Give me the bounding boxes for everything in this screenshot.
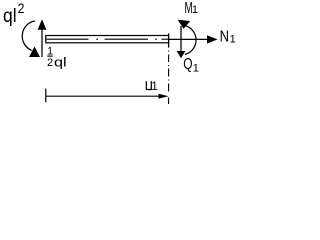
svg-text:2: 2: [18, 0, 25, 16]
label ql^2 (applied moment value): [3, 0, 25, 27]
svg-text:1: 1: [192, 4, 198, 16]
svg-text:1: 1: [230, 33, 236, 45]
svg-text:N: N: [220, 29, 229, 46]
moment arrow ql^2 (left end, arc): [22, 21, 35, 51]
beam cut section cap: [168, 33, 170, 47]
dimension line un: [46, 95, 160, 97]
svg-text:1: 1: [151, 81, 157, 93]
dimension extension line (dash-dot, below right end): [168, 51, 170, 105]
svg-text:1: 1: [193, 63, 199, 75]
beam outline: [46, 36, 169, 43]
force arrow Q1 arrowhead: [177, 51, 186, 58]
beam centerline (dash-dot): [47, 38, 169, 40]
dimension line start tick: [45, 89, 47, 103]
svg-text:ql: ql: [54, 55, 67, 69]
dimension line arrowhead: [159, 94, 169, 99]
svg-text:2: 2: [47, 57, 53, 69]
label 1/2 ql: [47, 46, 67, 70]
force arrow 1/2 ql arrowhead: [38, 19, 47, 30]
force arrow N1 arrowhead: [207, 35, 218, 43]
label u1 (span length): [146, 81, 158, 93]
force arrow N1 (axial, right): [169, 38, 208, 40]
label N1: [220, 29, 236, 46]
moment arrow M1 arrowhead: [178, 20, 191, 29]
force arrow Q1 (shear, down): [180, 26, 182, 51]
svg-text:Q: Q: [183, 56, 192, 73]
moment arrow ql^2 arrowhead: [29, 47, 40, 58]
moment arrow M1 (right end, arc): [185, 26, 196, 55]
svg-text:ql: ql: [3, 6, 17, 27]
label M1: [185, 0, 199, 17]
force arrow 1/2 ql (left reaction, up): [41, 30, 43, 58]
label Q1: [183, 56, 199, 74]
